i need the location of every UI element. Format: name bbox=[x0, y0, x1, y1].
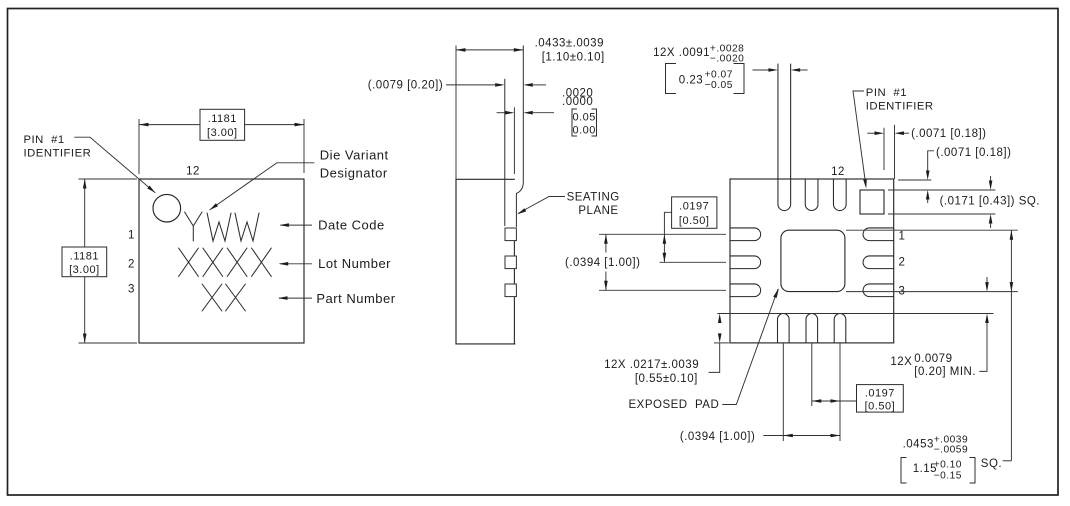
dimension .0197 [0.50] pitch box (left) bbox=[664, 212, 671, 262]
svg-text:[0.55±0.10]: [0.55±0.10] bbox=[635, 373, 698, 385]
dimension .0020/.0000 [0.05/0.00] standoff bbox=[497, 112, 506, 114]
exposed pad extension lines (right) bbox=[846, 229, 1018, 231]
svg-text:EXPOSED PAD: EXPOSED PAD bbox=[629, 399, 720, 411]
bottom side terminals (3 slots) bbox=[777, 313, 845, 342]
lead inner edge line (side view) bbox=[504, 79, 506, 226]
svg-text:0.0079: 0.0079 bbox=[914, 353, 952, 365]
left side terminals (3 slots) bbox=[730, 228, 761, 297]
svg-text:.0197: .0197 bbox=[865, 387, 895, 399]
body-plane extension line (side view) bbox=[513, 107, 515, 174]
svg-text:[0.50]: [0.50] bbox=[679, 215, 710, 227]
right side terminals (3 slots) bbox=[863, 228, 894, 297]
svg-text:1: 1 bbox=[128, 229, 135, 241]
svg-text:+0.10: +0.10 bbox=[934, 460, 962, 471]
marking glyphs YWW (date code) bbox=[179, 212, 272, 311]
marking glyphs XXXX (lot number) bbox=[179, 248, 199, 277]
pin 1 identifier square (bottom view) bbox=[860, 190, 884, 214]
label Die Variant Designator bbox=[320, 147, 389, 180]
svg-text:12X: 12X bbox=[890, 356, 912, 368]
label PIN #1 IDENTIFIER (left view) bbox=[24, 134, 92, 160]
svg-text:IDENTIFIER: IDENTIFIER bbox=[24, 148, 92, 160]
svg-text:(.0071 [0.18]): (.0071 [0.18]) bbox=[911, 128, 986, 140]
bracketed metric 0.05/0.00 bbox=[572, 109, 597, 136]
svg-text:[3.00]: [3.00] bbox=[207, 127, 238, 139]
pin 1 identifier circle bbox=[153, 194, 181, 222]
svg-text:PIN #1: PIN #1 bbox=[24, 134, 65, 146]
leader die variant designator bbox=[210, 163, 315, 210]
svg-text:(.0394 [1.00]): (.0394 [1.00]) bbox=[680, 431, 755, 443]
svg-text:1: 1 bbox=[899, 231, 906, 243]
seating plane line with corner lead bend bbox=[516, 46, 523, 228]
leader PIN #1 identifier bbox=[74, 137, 155, 193]
svg-text:12: 12 bbox=[831, 166, 845, 178]
svg-text:.1181: .1181 bbox=[70, 250, 99, 262]
svg-text:Die Variant: Die Variant bbox=[320, 147, 389, 162]
svg-text:IDENTIFIER: IDENTIFIER bbox=[866, 101, 934, 113]
dimension .1181 [3.00] horizontal (left view top) bbox=[139, 119, 304, 174]
svg-text:0.23: 0.23 bbox=[679, 75, 703, 87]
svg-text:PLANE: PLANE bbox=[578, 205, 618, 217]
svg-text:.0197: .0197 bbox=[679, 201, 709, 213]
svg-text:[1.10±0.10]: [1.10±0.10] bbox=[542, 52, 605, 64]
svg-text:Lot Number: Lot Number bbox=[318, 256, 391, 271]
exposed pad bbox=[781, 230, 845, 291]
dimension .1181 [3.00] vertical (left view left side) bbox=[79, 179, 138, 343]
svg-text:−0.15: −0.15 bbox=[934, 471, 962, 482]
pin count / pin numbers (left view) bbox=[128, 166, 200, 296]
svg-text:2: 2 bbox=[128, 258, 135, 270]
dimension (.0394 [1.00]) row1-row3 pitch (left) bbox=[605, 234, 607, 252]
dimension .0453 +.0039/-.0059 [1.15 +0.10/-0.15] SQ. exposed pad size bbox=[1010, 230, 1012, 461]
svg-text:SEATING: SEATING bbox=[567, 191, 620, 203]
bottom edge extension (left) bbox=[714, 342, 729, 344]
dimension .0433±.0039 [1.10±0.10] bbox=[456, 46, 523, 180]
svg-text:12X .0217±.0039: 12X .0217±.0039 bbox=[604, 359, 699, 371]
svg-text:(.0171 [0.43]) SQ.: (.0171 [0.43]) SQ. bbox=[940, 196, 1040, 208]
svg-text:−0.05: −0.05 bbox=[705, 80, 733, 91]
pin count and pin numbers (bottom view) bbox=[831, 166, 905, 298]
svg-text:Designator: Designator bbox=[320, 165, 388, 180]
svg-text:2: 2 bbox=[899, 257, 906, 269]
svg-text:(.0394 [1.00]): (.0394 [1.00]) bbox=[565, 257, 640, 269]
svg-text:SQ.: SQ. bbox=[981, 458, 1002, 470]
dimension .0197 [0.50] pitch box (bottom) bbox=[812, 400, 840, 402]
pin1 square extension lines bbox=[888, 189, 995, 191]
bottom slot centerline extensions bbox=[782, 343, 784, 441]
svg-text:.0433±.0039: .0433±.0039 bbox=[535, 37, 604, 49]
svg-text:3: 3 bbox=[128, 284, 135, 296]
package outline (bottom view) bbox=[730, 179, 894, 343]
svg-text:+0.07: +0.07 bbox=[705, 69, 733, 80]
row centerline extension lines (left of bottom view) bbox=[599, 233, 726, 235]
svg-text:Date Code: Date Code bbox=[318, 217, 385, 232]
svg-text:(.0079 [0.20]): (.0079 [0.20]) bbox=[368, 80, 443, 92]
svg-text:12X .0091: 12X .0091 bbox=[653, 47, 710, 59]
svg-text:[0.50]: [0.50] bbox=[865, 400, 896, 412]
dimension (.0171 [0.43]) SQ. pin1 mark size bbox=[990, 176, 992, 181]
svg-text:[3.00]: [3.00] bbox=[69, 264, 100, 276]
svg-text:0.05: 0.05 bbox=[572, 112, 595, 124]
svg-text:Part Number: Part Number bbox=[316, 291, 395, 306]
label PIN #1 IDENTIFIER (bottom view) with leader bbox=[866, 87, 934, 113]
lead end caps (side view pads) bbox=[505, 228, 516, 297]
svg-text:PIN #1: PIN #1 bbox=[866, 87, 907, 99]
svg-text:.0000: .0000 bbox=[562, 96, 593, 108]
svg-text:[0.20] MIN.: [0.20] MIN. bbox=[914, 366, 976, 378]
bottom terminal tip extension line bbox=[717, 313, 993, 315]
svg-text:.1181: .1181 bbox=[208, 113, 237, 125]
marking glyphs XX (part number) bbox=[202, 284, 222, 311]
svg-text:.0453: .0453 bbox=[903, 439, 934, 451]
svg-text:12: 12 bbox=[186, 166, 200, 178]
package body outline (top view) bbox=[139, 179, 304, 343]
package body (side view) bbox=[456, 179, 515, 344]
dimension (.0071 [0.18]) pin1 mark to edge bbox=[883, 128, 885, 170]
svg-text:−.0020: −.0020 bbox=[710, 53, 744, 64]
svg-text:(.0071 [0.18]): (.0071 [0.18]) bbox=[936, 147, 1011, 159]
top side terminals (3 slots) bbox=[778, 64, 846, 211]
svg-text:−.0059: −.0059 bbox=[934, 445, 968, 456]
svg-text:0.00: 0.00 bbox=[572, 125, 595, 137]
